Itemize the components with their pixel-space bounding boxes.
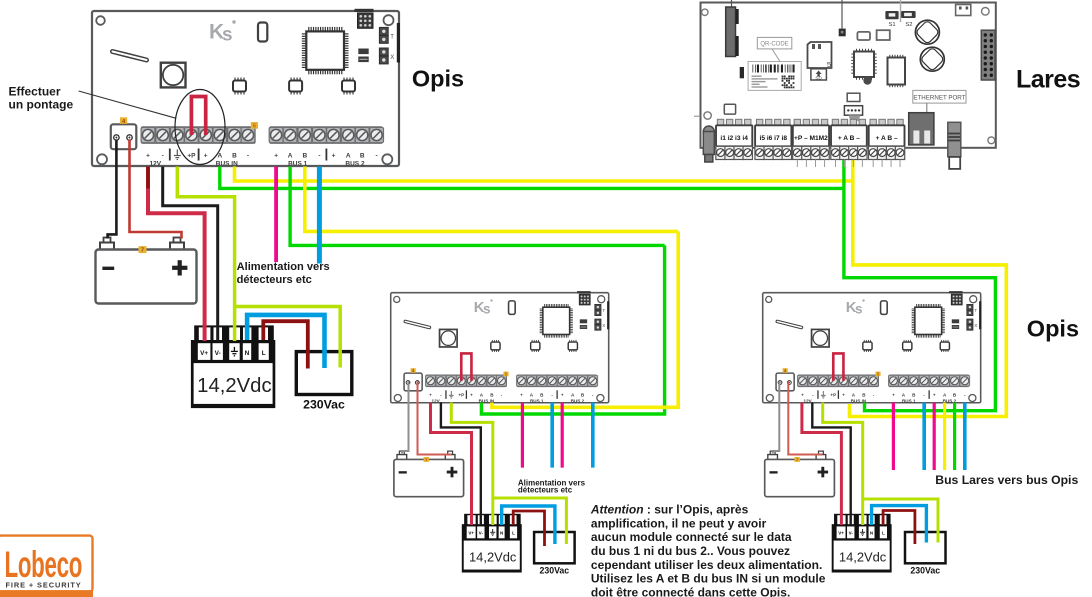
- Lares antenna lead lines: [732, 0, 901, 29]
- wire: Opis1 earth branch to 230Vac (yellow-green): [235, 307, 341, 368]
- Lares 4-pin connector: [844, 106, 862, 121]
- Lares transformer T1: [948, 122, 961, 169]
- Opis3 board X connector: [967, 319, 978, 330]
- Opis3 board edge connector bar: [979, 301, 981, 329]
- svg-text:ETHERNET PORT: ETHERNET PORT: [913, 94, 965, 101]
- Lares component D1: [839, 29, 846, 37]
- svg-text:+: +: [274, 152, 278, 159]
- wire: Opis1 battery positive (red): [130, 140, 182, 239]
- svg-text:-: -: [247, 152, 249, 159]
- Opis2 board IC3: [531, 340, 540, 352]
- wire: Opis1 12V+ terminal stub (dark red): [146, 167, 150, 189]
- svg-text:-: -: [376, 152, 378, 159]
- Opis1 main board jumper link +P to + (red): [191, 97, 205, 136]
- Opis3 board IC3: [903, 340, 912, 352]
- Opis2 board callout tag 4: [411, 368, 416, 373]
- svg-text:+: +: [470, 393, 473, 398]
- svg-text:B: B: [232, 152, 237, 159]
- Opis1 main board terminal labels: [146, 149, 378, 168]
- wire: Opis3 BUS1 - (blue): [922, 403, 926, 471]
- ellipse highlighting jumper: [175, 90, 225, 165]
- svg-text:X: X: [390, 55, 394, 61]
- Lares product label with barcode: [748, 62, 801, 91]
- Opis1 main board IC4: [342, 78, 355, 95]
- Opis2 board mounting holes: [394, 296, 605, 402]
- wire: Opis3 BUS2 A (yellow): [943, 403, 946, 471]
- Opis3 board IC4: [940, 340, 949, 352]
- Opis1 main board IC2: [233, 78, 246, 95]
- wire: Opis3 earth to PSU3 earth (yellow-green): [823, 403, 863, 526]
- Opis3 board tamper switch: [812, 329, 830, 347]
- Opis1 main board callout tag 5: [251, 122, 258, 130]
- Lares terminal group 2: i5 i6 i7 i8: [755, 119, 792, 159]
- Lares ethernet RJ45 jack: [909, 113, 934, 145]
- svg-text:X: X: [974, 323, 977, 328]
- Lares PCB outline: [701, 3, 996, 148]
- Opis1 main board IC3: [289, 78, 302, 95]
- Lares buzzer: [863, 76, 871, 84]
- svg-text:Utilisez les A et B du bus IN: Utilisez les A et B du bus IN si un modu…: [591, 572, 826, 586]
- svg-text:+: +: [933, 393, 936, 398]
- wire: Opis1 12V- to PSU1 V- (black): [163, 167, 218, 342]
- svg-text:détecteurs etc: détecteurs etc: [237, 274, 312, 286]
- Opis2 board KS logo: [474, 299, 493, 316]
- svg-text:+: +: [801, 393, 804, 398]
- wire: Opis3 BUS2 B (green): [953, 403, 956, 471]
- svg-text:BUS 1: BUS 1: [530, 398, 544, 403]
- Opis3 230Vac mains box: [905, 532, 946, 575]
- wire: Opis1 BUS IN B to Lares B (yellow): [235, 167, 853, 182]
- Opis2 board wire antenna rod: [405, 321, 429, 327]
- wire: Opis2 BUS IN A link (green): [481, 245, 664, 414]
- Opis1 main board X connector: [379, 48, 394, 64]
- svg-text:FIRE + SECURITY: FIRE + SECURITY: [6, 581, 82, 590]
- Lares left edge stub: [694, 115, 701, 117]
- svg-text:Opis: Opis: [412, 66, 464, 92]
- wire: Opis1 BUS1 + detector supply (magenta): [274, 167, 278, 263]
- Lares component U3: [877, 30, 890, 40]
- svg-text:+: +: [892, 393, 895, 398]
- annotation: Effectuer un pontage: [9, 85, 74, 112]
- svg-text:+P: +P: [458, 393, 464, 398]
- Opis3 board terminal block 12V / BUS IN: [798, 375, 879, 387]
- Opis2 board jumper pads M R: [580, 319, 587, 329]
- Opis3 board: PCB board: [763, 291, 982, 403]
- Lares QR-CODE label: [757, 37, 792, 61]
- svg-text:s: s: [855, 302, 863, 317]
- svg-text:BUS 2: BUS 2: [345, 161, 365, 168]
- Opis3 board IC2: [863, 340, 872, 352]
- svg-text:T: T: [390, 35, 394, 41]
- Lares control panel PCB: [694, 0, 996, 169]
- wire: Opis2 BUS1 + (magenta): [521, 403, 524, 468]
- svg-text:V+: V+: [838, 531, 844, 536]
- svg-text:L: L: [882, 531, 885, 536]
- Opis1 main board terminal block 12V / BUS IN: [141, 127, 255, 144]
- wire: Opis3 battery positive (red): [788, 382, 821, 455]
- svg-text:s: s: [222, 25, 233, 46]
- Opis1 PSU power supply 14,2Vdc: [191, 325, 275, 408]
- Lares mounting holes: [702, 8, 995, 144]
- Lares terminal group 3: +P - M1M2: [793, 119, 830, 167]
- wire: Lares B to Opis3 BUS IN (yellow): [850, 149, 1007, 417]
- Lares dark chip component: [740, 67, 744, 78]
- svg-text:Attention : sur l’Opis, après: Attention : sur l’Opis, après: [590, 503, 749, 517]
- svg-text:14,2Vdc: 14,2Vdc: [469, 550, 517, 565]
- Opis2 board IC4: [568, 340, 577, 352]
- Opis3 board jumper pads M R: [952, 319, 959, 329]
- Opis2 board X connector: [595, 319, 606, 330]
- wire: Opis1 battery negative (black): [108, 140, 117, 239]
- Opis3 board battery connector J1: [776, 373, 794, 391]
- wire: Opis1 earth to PSU1 earth (yellow-green): [177, 167, 234, 342]
- svg-text:V+: V+: [468, 531, 474, 536]
- annotation: Alimentation vers detecteurs (Opis1): [237, 261, 330, 286]
- wire: PSU2 L to 230Vac (dark red): [513, 511, 544, 546]
- wire: Opis1 BUS IN A to Lares A (green): [220, 167, 844, 189]
- Opis2 board battery connector J1: [404, 373, 422, 391]
- svg-text:BUS 1: BUS 1: [902, 398, 916, 403]
- svg-text:V-: V-: [849, 531, 854, 536]
- svg-text:+: +: [332, 152, 336, 159]
- Lares relay K1: [956, 5, 971, 16]
- svg-text:+: +: [146, 152, 150, 159]
- Opis3 board wire antenna rod: [777, 321, 801, 327]
- Opis2 board tamper switch: [440, 329, 458, 347]
- annotation: Alimentation vers detecteurs (Opis2): [518, 478, 586, 494]
- Opis2 board crystal component: [509, 301, 516, 314]
- svg-text:B: B: [302, 152, 307, 159]
- wire: Opis3 12V+ to PSU3 V+ (crimson): [802, 403, 842, 526]
- svg-text:+P: +P: [830, 393, 836, 398]
- Opis3 board jumper link +P to + (red): [833, 353, 843, 380]
- svg-text:A: A: [288, 152, 293, 159]
- wire: PSU1 N to 230Vac (blue): [247, 315, 324, 368]
- svg-text:+: +: [429, 393, 432, 398]
- Opis1 main board: PCB board: [92, 9, 400, 168]
- Lares ETHERNET PORT label: [913, 90, 966, 112]
- Lares left relay box: [724, 104, 735, 114]
- wire: Opis2 BUS1 - (blue): [550, 403, 554, 468]
- Lares capacitor C1: [915, 20, 939, 44]
- svg-text:doit être connecté dans cette: doit être connecté dans cette Opis.: [591, 585, 790, 597]
- svg-text:+: +: [561, 393, 564, 398]
- svg-text:+: +: [204, 152, 208, 159]
- Opis2 board terminal labels: [429, 390, 594, 403]
- svg-text:QR-CODE: QR-CODE: [760, 42, 788, 48]
- Opis1 main board MCU U1 (QFP): [302, 27, 349, 74]
- Lares jumper S1: [885, 11, 898, 28]
- Opis2 board edge connector bar: [607, 301, 609, 329]
- svg-text:-: -: [318, 152, 320, 159]
- svg-text:N: N: [870, 531, 873, 536]
- wire: Opis2 battery positive (red): [418, 382, 451, 455]
- Lares expansion pin header: [981, 30, 995, 80]
- Opis2 PSU power supply 14,2Vdc: [462, 514, 522, 573]
- Opis3 board programming header 3x3: [949, 291, 962, 305]
- Opis1 main board PCB outline: [92, 11, 399, 166]
- Opis1 230Vac mains box: [296, 352, 352, 412]
- svg-text:+ A B –: + A B –: [876, 135, 898, 142]
- Opis2 board programming header 3x3: [577, 291, 590, 305]
- svg-text:14,2Vdc: 14,2Vdc: [197, 375, 271, 397]
- Lares terminal group 4: + A B -: [831, 119, 867, 167]
- annotation: Attention paragraph: [590, 503, 826, 597]
- Lares terminal group 5: + A B -: [868, 119, 904, 167]
- wire: Opis2 BUS IN B link (yellow): [492, 231, 678, 407]
- Opis1 main board callout tag 4: [120, 117, 127, 125]
- svg-text:V-: V-: [215, 350, 221, 357]
- Lares MCU U1 (QFP): [851, 49, 876, 80]
- svg-text:aucun module connecté sur le d: aucun module connecté sur le data: [591, 530, 792, 544]
- Opis1 main board mounting holes: [96, 15, 393, 164]
- Opis2 board MCU U1 (QFP): [540, 304, 573, 338]
- Opis3 board T connector: [967, 304, 978, 315]
- Opis1 main board edge connector bar: [397, 23, 400, 63]
- wire: PSU2 N to 230Vac (blue): [502, 506, 555, 544]
- svg-text:V+: V+: [200, 350, 208, 357]
- wire: Opis3 BUS2 + (magenta): [933, 403, 936, 471]
- svg-text:SD: SD: [815, 76, 822, 81]
- svg-text:cependant utiliser les deux al: cependant utiliser les deux alimentation…: [591, 558, 822, 572]
- wire: Opis3 BUS2 - (blue): [963, 403, 967, 471]
- Opis1 main board KS logo: [209, 20, 236, 45]
- svg-text:12V: 12V: [150, 161, 162, 168]
- Opis2 board: PCB board: [391, 291, 610, 403]
- svg-text:L: L: [512, 531, 515, 536]
- svg-text:S1: S1: [888, 22, 895, 28]
- Opis2 board PCB outline: [391, 293, 609, 403]
- wire: Opis1 BUS1 - detector supply (blue): [317, 167, 322, 264]
- Opis1 main board terminal block BUS 1 / BUS 2: [269, 127, 383, 144]
- Lares micro SD slot: [808, 42, 832, 69]
- svg-text:L: L: [262, 350, 266, 357]
- svg-text:+: +: [520, 393, 523, 398]
- Opis1 main board crystal component: [258, 23, 267, 42]
- Opis2 board terminal block 12V / BUS IN: [426, 375, 507, 387]
- Opis2 board terminal block BUS 1 / BUS 2: [517, 375, 598, 387]
- Lares terminal group 1: i1 i2 i3 i4: [716, 119, 753, 159]
- Opis1 main board tamper switch: [161, 63, 186, 88]
- Lobeco logo box: [0, 536, 93, 597]
- Opis2 backup battery: [394, 451, 464, 497]
- svg-text:un pontage: un pontage: [9, 97, 74, 111]
- svg-text:i1 i2 i3 i4: i1 i2 i3 i4: [720, 135, 748, 142]
- wire: Opis1 12V+ to PSU1 V+ (crimson): [148, 167, 205, 342]
- svg-text:7: 7: [141, 248, 144, 254]
- Opis3 board KS logo: [846, 299, 865, 316]
- Lares memory U2 (QFP): [888, 55, 906, 87]
- svg-text:N: N: [500, 531, 503, 536]
- Lares jumper S2: [901, 11, 916, 28]
- svg-text:230Vac: 230Vac: [303, 398, 345, 412]
- wire: PSU1 L to 230Vac (dark red): [263, 321, 308, 368]
- Opis2 board T connector: [595, 304, 606, 315]
- svg-text:Opis: Opis: [1027, 316, 1079, 342]
- svg-text:+P: +P: [187, 152, 196, 159]
- wire: Opis3 battery negative (gray): [773, 382, 780, 454]
- Opis3 board mounting holes: [766, 296, 977, 402]
- svg-text:Lobeco: Lobeco: [5, 543, 83, 586]
- wire: PSU3 L to 230Vac (dark red): [883, 511, 915, 545]
- Opis3 board terminal labels: [801, 390, 966, 403]
- svg-text:230Vac: 230Vac: [539, 565, 569, 575]
- svg-text:N: N: [245, 350, 250, 357]
- Opis1 main board T connector: [379, 27, 394, 43]
- Opis2 board IC2: [491, 340, 500, 352]
- Opis1 main board jumper pads M R: [358, 49, 368, 63]
- wire: Opis3 earth branch to 230Vac (yellow-green): [863, 499, 938, 543]
- svg-text:BUS 2: BUS 2: [571, 398, 585, 403]
- svg-text:230Vac: 230Vac: [910, 565, 940, 575]
- Opis3 backup battery: [765, 451, 835, 497]
- Opis2 230Vac mains box: [534, 532, 575, 575]
- svg-text:+: +: [842, 393, 845, 398]
- wire: Opis2 12V- to PSU2 V- (black): [441, 403, 481, 526]
- wire: Opis1 BUS1 A to Opis2 BUS IN A (green): [290, 167, 664, 246]
- svg-text:5: 5: [827, 60, 831, 69]
- wire: Lares A to Opis3 BUS IN (green): [844, 149, 996, 411]
- svg-text:A: A: [346, 152, 351, 159]
- svg-text:-: -: [162, 152, 164, 159]
- svg-text:S2: S2: [905, 22, 912, 28]
- svg-text:Bus Lares vers bus Opis: Bus Lares vers bus Opis: [935, 473, 1078, 487]
- Lares left connector bar: [726, 7, 739, 57]
- Opis2 board jumper link +P to + (red): [461, 353, 471, 380]
- svg-text:+P – M1M2: +P – M1M2: [794, 135, 828, 142]
- Lares SD icon: [811, 69, 827, 81]
- wire: PSU3 N to 230Vac (blue): [872, 506, 927, 543]
- svg-text:V-: V-: [479, 531, 484, 536]
- wire: Opis3 12V- to PSU3 V- (black): [812, 403, 850, 526]
- svg-text:amplification, il ne peut y av: amplification, il ne peut y avoir: [591, 516, 767, 530]
- Opis1 main board wire antenna rod: [113, 52, 147, 61]
- Opis2 board callout tag 5: [503, 371, 508, 376]
- Opis3 board crystal component: [881, 301, 888, 314]
- svg-text:Alimentation vers: Alimentation vers: [237, 261, 330, 273]
- Opis3 board callout tag 4: [783, 368, 788, 373]
- Opis1 main board battery connector J1: [111, 124, 137, 149]
- svg-text:s: s: [483, 302, 491, 317]
- svg-text:du bus 1 ni du bus 2.. Vous po: du bus 1 ni du bus 2.. Vous pouvez: [591, 544, 790, 558]
- Lares tamper spring: [703, 126, 714, 162]
- wire: Opis2 earth branch to 230Vac (yellow-green): [493, 498, 567, 544]
- Opis3 PSU power supply 14,2Vdc: [832, 514, 892, 573]
- Opis3 board terminal block BUS 1 / BUS 2: [889, 375, 970, 387]
- Opis3 board callout tag 5: [875, 371, 880, 376]
- svg-text:B: B: [360, 152, 365, 159]
- wire: Opis3 BUS1 + (magenta): [892, 403, 895, 471]
- Lares capacitor C2: [920, 47, 944, 71]
- svg-text:T: T: [602, 308, 605, 313]
- svg-text:14,2Vdc: 14,2Vdc: [839, 550, 887, 565]
- Lares component above connector: [847, 93, 860, 101]
- svg-text:Lares: Lares: [1016, 66, 1080, 94]
- wire: Opis2 BUS2 + (magenta): [561, 403, 564, 468]
- leader line to jumper: [79, 91, 177, 118]
- Opis3 board PCB outline: [763, 293, 981, 403]
- Lares component C5: [857, 32, 870, 40]
- svg-text:détecteurs etc: détecteurs etc: [518, 486, 573, 495]
- svg-text:T: T: [974, 308, 977, 313]
- wire: Opis2 BUS2 - (blue): [591, 403, 595, 468]
- Opis1 main board programming header 3x3: [355, 9, 374, 29]
- wire: Opis2 earth to PSU2 earth (yellow-green): [451, 403, 493, 526]
- wire: Opis1 BUS1 B to Opis2 BUS IN B (yellow): [305, 167, 678, 232]
- svg-text:X: X: [602, 323, 605, 328]
- svg-text:12V: 12V: [432, 398, 441, 403]
- wire: Opis2 battery negative (gray): [402, 382, 409, 454]
- svg-text:i5 i6 i7 i8: i5 i6 i7 i8: [760, 135, 788, 142]
- Opis3 board MCU U1 (QFP): [912, 304, 945, 338]
- wire: Opis2 12V+ to PSU2 V+ (crimson): [431, 403, 472, 526]
- Opis1 backup battery: [96, 238, 197, 304]
- svg-text:+ A B –: + A B –: [838, 135, 860, 142]
